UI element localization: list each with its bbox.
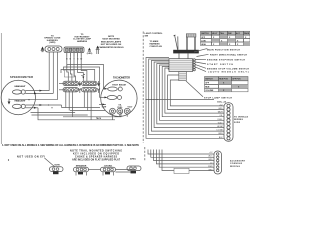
- svg-text:ACC: ACC: [236, 32, 241, 35]
- svg-text:SWITCH: SWITCH: [205, 78, 213, 80]
- svg-text:RUN: RUN: [205, 86, 210, 88]
- svg-text:CHOKE & SPEAKER HARNESS: CHOKE & SPEAKER HARNESS: [75, 156, 117, 159]
- svg-text:TO VEHICLE: TO VEHICLE: [234, 117, 249, 119]
- svg-text:SWITCH: SWITCH: [201, 33, 209, 35]
- svg-text:ACCESSORY: ACCESSORY: [230, 160, 246, 163]
- svg-text:+12: +12: [219, 104, 222, 106]
- svg-text:TACH MOUNTED: TACH MOUNTED: [102, 38, 120, 41]
- svg-text:KEY INCLUDED ON EQUIPPED: KEY INCLUDED ON EQUIPPED: [73, 154, 119, 156]
- svg-text:TACH: TACH: [96, 117, 102, 120]
- svg-text:(GRD): (GRD): [87, 53, 93, 55]
- svg-text:LO BM: LO BM: [217, 130, 223, 132]
- svg-text:VOLT: VOLT: [128, 106, 134, 108]
- svg-text:WIRING: WIRING: [234, 119, 243, 121]
- svg-text:INDICATOR LAMPS: INDICATOR LAMPS: [101, 40, 122, 43]
- svg-text:RUN POS: RUN POS: [219, 78, 228, 80]
- svg-text:ARE INCLUDED ON FLAT SUPPLIED: ARE INCLUDED ON FLAT SUPPLIED PLAT: [72, 159, 121, 162]
- svg-text:(GRD): (GRD): [130, 159, 136, 161]
- svg-text:WIRING: WIRING: [230, 166, 240, 168]
- svg-text:LIGHT CONTROL: LIGHT CONTROL: [145, 33, 164, 35]
- svg-text:ENGINE STOP VOLUME SWITCH: ENGINE STOP VOLUME SWITCH: [207, 68, 249, 70]
- svg-text:DIM: DIM: [228, 33, 232, 35]
- svg-text:GRD: GRD: [218, 108, 223, 110]
- svg-text:MAIN FUNCTION SWITCH: MAIN FUNCTION SWITCH: [207, 48, 240, 51]
- svg-text:SPEEDOMETER: SPEEDOMETER: [10, 75, 33, 79]
- svg-text:(GRD): (GRD): [49, 42, 55, 44]
- svg-text:COIL +12: COIL +12: [217, 101, 227, 103]
- svg-text:SIDE: SIDE: [234, 122, 241, 124]
- svg-text:NOTE: NOTE: [55, 164, 61, 166]
- svg-text:TACHOMETER: TACHOMETER: [113, 76, 130, 80]
- svg-text:RIGHT DIRECTIONAL SWITCH: RIGHT DIRECTIONAL SWITCH: [210, 53, 247, 56]
- svg-text:HEADLIGHT: HEADLIGHT: [15, 85, 27, 88]
- svg-text:NOT USED ON EFI: NOT USED ON EFI: [17, 156, 45, 159]
- svg-text:CONN PLUG: CONN PLUG: [150, 46, 163, 48]
- svg-text:1. NOT USED ON ALL MODELS 2.: 1. NOT USED ON ALL MODELS 2. SEE WIRING …: [2, 144, 139, 147]
- svg-text:LOW: LOW: [102, 106, 107, 108]
- svg-text:STOP LAMP SWITCH: STOP LAMP SWITCH: [204, 96, 232, 99]
- svg-text:BRN: BRN: [219, 133, 224, 135]
- svg-text:PARK: PARK: [244, 32, 250, 35]
- svg-text:HIGH BEAM: HIGH BEAM: [112, 84, 126, 87]
- svg-text:TACH: TACH: [217, 111, 223, 114]
- svg-text:OFF POS: OFF POS: [232, 78, 241, 80]
- svg-text:VOLT: VOLT: [218, 122, 224, 124]
- svg-text:NOT INCLUDED ON: NOT INCLUDED ON: [101, 44, 122, 46]
- svg-text:ENGINE STOP/RUN SWITCH: ENGINE STOP/RUN SWITCH: [207, 59, 245, 61]
- svg-text:NOTE: NOTE: [108, 36, 115, 38]
- svg-text:FUEL: FUEL: [218, 119, 223, 121]
- svg-text:HARNESS: HARNESS: [150, 43, 161, 46]
- svg-text:ACC: ACC: [209, 155, 214, 158]
- svg-text:HIGH: HIGH: [201, 44, 206, 46]
- svg-text:LOW: LOW: [201, 40, 206, 42]
- svg-text:TO MAIN: TO MAIN: [150, 40, 159, 43]
- svg-text:GRD: GRD: [208, 159, 213, 161]
- svg-text:CARBURETED MODELS: CARBURETED MODELS: [98, 46, 124, 49]
- svg-text:HI BM: HI BM: [217, 126, 223, 128]
- svg-text:+12: +12: [209, 152, 212, 154]
- svg-text:GRD: GRD: [208, 170, 213, 172]
- svg-text:(AUTO MODELS ONLY): (AUTO MODELS ONLY): [209, 71, 249, 74]
- svg-text:HD LT: HD LT: [212, 33, 218, 35]
- svg-text:OIL: OIL: [219, 115, 222, 117]
- svg-text:NOTE TRAIL MOUNTED SWITCHING: NOTE TRAIL MOUNTED SWITCHING: [70, 150, 122, 153]
- svg-text:PWR: PWR: [208, 166, 213, 168]
- svg-text:START SWITCH: START SWITCH: [207, 63, 233, 66]
- svg-text:HARNESS: HARNESS: [77, 40, 88, 43]
- svg-text:VOLUME: VOLUME: [205, 90, 214, 92]
- svg-text:CONSOLE: CONSOLE: [230, 163, 243, 165]
